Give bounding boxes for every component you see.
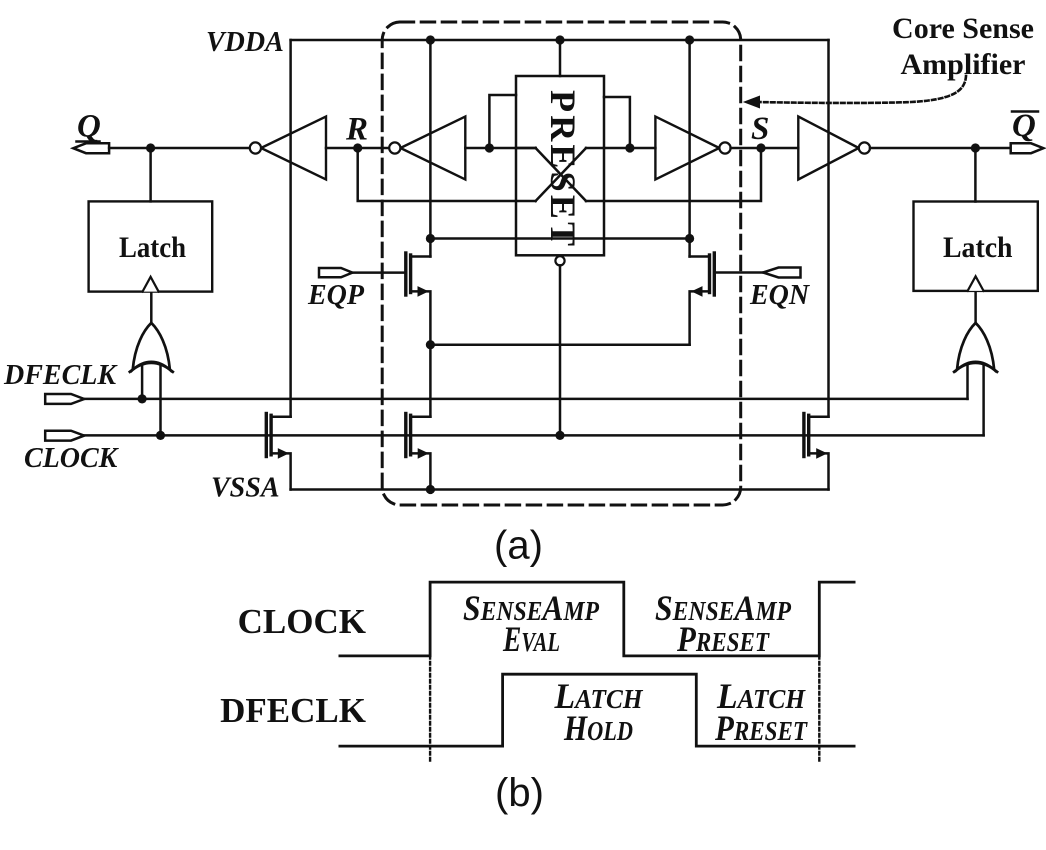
node R (353, 143, 362, 152)
label Qbar overline (1012, 110, 1038, 113)
wire x430 down to tail M2 (429, 345, 432, 417)
wire VDDA left drop to tail M1 (289, 40, 292, 417)
svg-text:R: R (345, 112, 368, 148)
port CLOCK (45, 431, 84, 441)
port DFECLK (45, 394, 84, 404)
wire OR2 output (974, 291, 977, 323)
wire X right stub top (586, 147, 604, 150)
or-gate OR2 (957, 323, 994, 370)
wire CLOCK (84, 434, 983, 437)
transistor M-EQN (690, 255, 710, 258)
or-gate OR1 (133, 323, 170, 370)
wire box right to U3 (604, 147, 655, 150)
transistor M2 (center tail) (411, 415, 431, 418)
transistor M1 (left tail) (271, 415, 291, 418)
svg-text:Q: Q (77, 109, 101, 145)
wire VDDA drop x430 to EQP (429, 40, 432, 257)
node VDDA dot center (555, 35, 564, 44)
wire U1 input to R (326, 147, 389, 150)
wire cross-couple X diagonal 2 (536, 148, 586, 201)
wire PRESET right loop (604, 97, 630, 148)
wire VDDA drop x560 to PRESET box (559, 40, 562, 76)
node S (756, 143, 765, 152)
timing diagram (340, 582, 854, 746)
latch Latch1 clock triangle (143, 277, 159, 292)
svg-text:Latch: Latch (943, 231, 1013, 264)
port EQN (763, 268, 801, 278)
op-amp inverter U2 (inner left) (400, 117, 465, 180)
node VDDA dot left (426, 35, 435, 44)
node U2-PRESET junction (485, 143, 494, 152)
label Q underline (77, 140, 100, 143)
node Q junction (146, 143, 155, 152)
node EQ source left (426, 340, 435, 349)
wire dotted marker left (429, 656, 431, 761)
wire dotted marker right (818, 656, 820, 761)
svg-text:Amplifier: Amplifier (901, 48, 1026, 81)
wire Qbar node to Latch2 (974, 148, 977, 202)
wire PRESET gate bubble (555, 256, 564, 265)
svg-text:DFECLK: DFECLK (3, 360, 118, 391)
transistor M-EQP (411, 255, 431, 258)
svg-text:EQN: EQN (749, 280, 811, 311)
wire U2 input to PRESET box (465, 147, 535, 150)
svg-text:(b): (b) (495, 771, 544, 815)
svg-text:Q: Q (1012, 108, 1036, 144)
op-amp inverter U4 (outer right) (798, 117, 858, 180)
wire PRESET gate to CLOCK (559, 265, 562, 435)
wire OR1 inputs (141, 360, 144, 399)
wire Q node to Latch1 (149, 148, 152, 201)
latch Latch1 (89, 201, 213, 291)
node VSSA junction (426, 485, 435, 494)
waveform CLOCK (340, 582, 854, 656)
node PRESET gate on CLOCK (555, 431, 564, 440)
node eq left (426, 234, 435, 243)
op-amp inverter U1 (outer left) (261, 117, 326, 180)
svg-text:VDDA: VDDA (206, 27, 284, 58)
wire VDDA rail (291, 39, 829, 42)
wire EQN gate (714, 271, 763, 274)
svg-text:DFECLK: DFECLK (220, 691, 366, 730)
svg-text:EQP: EQP (307, 280, 365, 311)
svg-text:CLOCK: CLOCK (238, 602, 366, 641)
wire DFECLK up to OR2 (966, 362, 969, 399)
wire Q to inverter U1 (109, 147, 250, 150)
wire EQP gate (352, 271, 405, 274)
wire U4 out to Qbar port (870, 147, 1011, 150)
port EQP (319, 268, 352, 277)
port Qbar (1011, 143, 1044, 153)
wire VDDA right drop to tail M3 (827, 40, 830, 417)
node DFECLK to OR1 (138, 394, 147, 403)
svg-text:Latch: Latch (119, 231, 186, 264)
wire S feedback down (586, 148, 761, 201)
op-amp inverter U3 (inner right) (655, 117, 719, 180)
wire equalize rail y238 (430, 237, 689, 240)
svg-text:VSSA: VSSA (211, 473, 280, 504)
wire CLOCK up to OR2 (982, 362, 985, 435)
wire X stubs inside box (516, 147, 536, 150)
wire VDDA drop x689 to EQN (688, 40, 691, 257)
node Qbar junction (971, 143, 980, 152)
svg-text:(a): (a) (494, 524, 543, 568)
wire DFECLK (84, 398, 967, 401)
node VDDA dot right (685, 35, 694, 44)
wire U3 out to S (731, 147, 799, 150)
svg-text:PRESET: PRESET (543, 90, 583, 249)
latch Latch2 clock triangle (968, 276, 984, 291)
wire VSSA rail (291, 488, 829, 491)
wire dotted callout arrow (757, 76, 966, 103)
transistor M3 (right tail) (809, 415, 829, 418)
port Q (73, 143, 109, 153)
wire R feedback down (358, 148, 536, 201)
latch Latch2 (914, 202, 1038, 291)
dashed core sense amplifier border (382, 22, 741, 505)
svg-text:Core Sense: Core Sense (892, 12, 1034, 45)
wire cross-couple X diagonal 1 (536, 148, 586, 201)
wire PRESET left loop (489, 95, 516, 148)
wire OR1 output (150, 292, 153, 323)
node eq right (685, 234, 694, 243)
waveform DFECLK (340, 674, 854, 746)
wire EQ sources rail y344 (430, 343, 689, 346)
svg-text:S: S (751, 111, 769, 147)
capacitor-style PRESET box (516, 76, 604, 255)
node S loop junction (625, 143, 634, 152)
node CLOCK to OR1 (156, 431, 165, 440)
svg-text:CLOCK: CLOCK (24, 443, 120, 474)
